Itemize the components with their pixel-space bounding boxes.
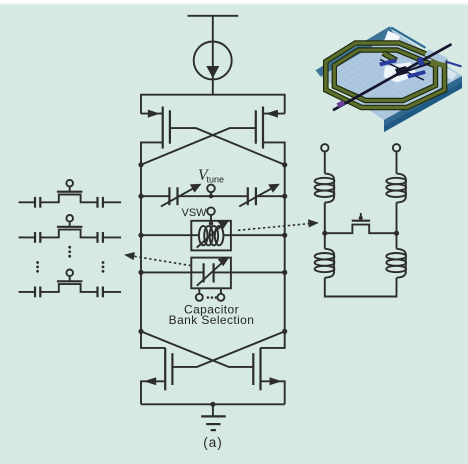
ellipsis dots left column — [36, 261, 39, 273]
node drain right — [282, 162, 287, 167]
wire varactor rung — [141, 195, 169, 197]
wire PMOS cross-coupling right gate — [141, 128, 256, 165]
transistor M4 NMOS right — [253, 331, 284, 404]
transistor M3 NMOS left — [141, 331, 172, 404]
dashed arrow VSW to right detail — [238, 219, 319, 230]
node NMOS drain left — [138, 329, 143, 334]
node VDD top bar — [188, 15, 239, 17]
wire left branch upper — [324, 152, 326, 174]
varactor D1 left — [161, 184, 202, 207]
wire bottom rail — [141, 403, 285, 405]
current source I1 — [194, 42, 232, 95]
node terminal left of switched-inductor — [321, 144, 328, 151]
inductor L4 lower-right — [386, 233, 406, 278]
wire left branch mid — [324, 203, 326, 234]
node NMOS drain right — [282, 329, 287, 334]
capacitor bank cell row 1 — [19, 180, 122, 208]
dashed arrow capbank to left detail — [124, 252, 191, 266]
wire VSW rung left — [141, 234, 191, 236]
wire right branch upper — [396, 152, 398, 174]
node terminal right of switched-inductor — [393, 144, 400, 151]
inductor L2 upper-right — [386, 174, 406, 203]
node switch right junction — [394, 231, 399, 236]
node dot right rail VSW — [282, 233, 287, 238]
wire NMOS cross-coupling left — [172, 331, 284, 367]
wire bottom loop of switched-inductor — [325, 278, 397, 297]
wire right branch mid — [396, 203, 398, 234]
node dot left rail capbank — [138, 270, 143, 275]
ellipsis dots center column — [68, 246, 71, 258]
node dot left rail varactor — [138, 194, 143, 199]
inductor VSW switched-inductor box — [191, 220, 231, 250]
wire capacitor-bank rung left — [141, 271, 191, 273]
node dot right rail capbank — [282, 270, 287, 275]
node dot left rail VSW — [138, 233, 143, 238]
wire right rail — [284, 165, 286, 332]
transistor M2 PMOS right — [256, 107, 285, 165]
inductor L3 lower-left — [315, 233, 335, 278]
node dot right rail varactor — [282, 194, 287, 199]
svg-text:(a): (a) — [203, 435, 223, 450]
node capacitor bank selection terminals — [196, 288, 225, 301]
varactor D2 right — [239, 184, 280, 207]
wire VDD to current source — [212, 16, 214, 42]
wire capacitor-bank rung right — [231, 271, 285, 273]
capacitor bank cell row 2 — [19, 215, 122, 243]
svg-text:Bank Selection: Bank Selection — [169, 313, 255, 327]
ground — [201, 404, 226, 430]
wire VSW rung right — [231, 234, 285, 236]
transistor M1 PMOS left — [141, 107, 170, 165]
svg-text:tune: tune — [207, 175, 225, 185]
wire PMOS cross-coupling left gate — [170, 128, 285, 165]
node switch left junction — [322, 231, 327, 236]
ellipsis dots right column — [102, 261, 105, 273]
capacitor bank box — [191, 257, 231, 288]
wire NMOS cross-coupling right — [141, 331, 253, 367]
inductor L1 upper-left — [315, 174, 335, 203]
transistor switch M5 — [325, 213, 397, 233]
node ground junction — [210, 402, 215, 407]
inductor 3D micrograph — [316, 26, 463, 132]
node VSW terminal — [207, 207, 215, 225]
node Vtune terminal — [207, 185, 215, 199]
wire top rail — [141, 95, 285, 114]
node drain left — [138, 162, 143, 167]
svg-text:VSW: VSW — [182, 207, 208, 219]
wire left rail — [140, 165, 142, 332]
capacitor bank cell row 3 — [19, 270, 122, 298]
